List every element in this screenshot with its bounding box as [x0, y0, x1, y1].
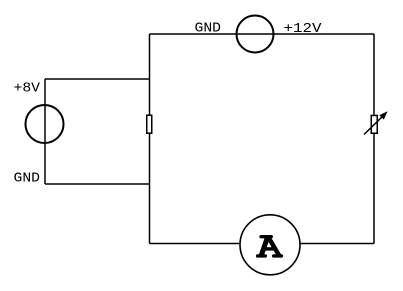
wire: sub-loop left side [44, 79, 46, 184]
voltage source V2 (+8V) [26, 105, 64, 143]
svg-text:GND: GND [14, 172, 41, 187]
wire: big loop bottom [150, 243, 375, 245]
resistor R1 [147, 115, 152, 133]
svg-text:GND: GND [195, 22, 222, 37]
svg-text:+8V: +8V [14, 82, 41, 97]
wire: big loop right side [373, 34, 375, 244]
wire: sub-loop top [45, 78, 150, 80]
ammeter A1 [240, 215, 300, 275]
wire: big loop left side [149, 34, 151, 244]
wire: sub-loop bottom [45, 183, 150, 185]
variable resistor R2 [364, 111, 388, 134]
svg-text:+12V: +12V [284, 22, 323, 37]
wire: big loop top (GND/+12V rail) [150, 33, 375, 35]
voltage source V1 (+12V rail) [237, 16, 274, 53]
